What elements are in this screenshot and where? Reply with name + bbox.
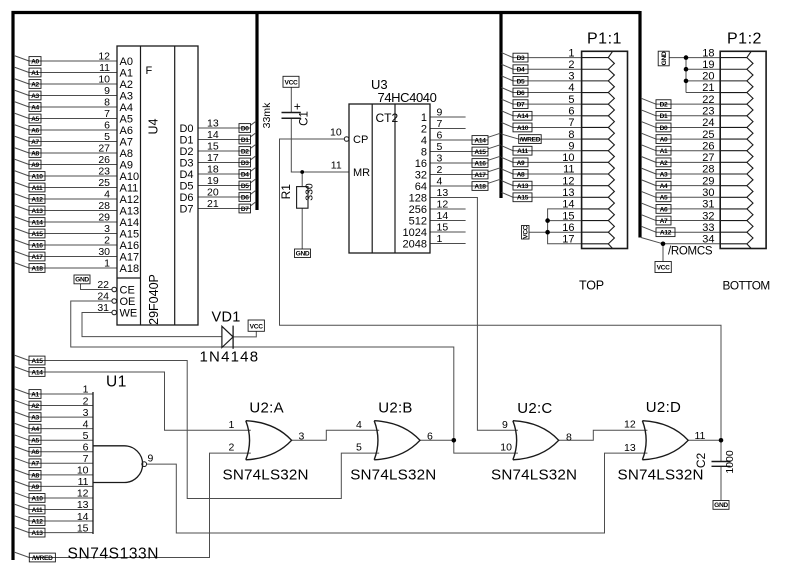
svg-text:5: 5 xyxy=(356,442,362,454)
svg-text:A12: A12 xyxy=(660,230,672,237)
svg-text:WE: WE xyxy=(120,307,138,319)
svg-text:A10: A10 xyxy=(120,171,140,183)
svg-text:20: 20 xyxy=(207,187,219,199)
svg-text:5: 5 xyxy=(83,430,89,442)
svg-text:9: 9 xyxy=(502,419,508,431)
svg-text:A4: A4 xyxy=(120,102,133,114)
svg-text:512: 512 xyxy=(409,215,427,227)
svg-text:A2: A2 xyxy=(31,81,39,88)
svg-text:A0: A0 xyxy=(31,58,39,65)
svg-text:D3: D3 xyxy=(241,160,249,167)
svg-text:12: 12 xyxy=(77,488,89,500)
svg-text:8: 8 xyxy=(566,432,572,444)
svg-text:25: 25 xyxy=(702,129,714,141)
svg-text:A14: A14 xyxy=(31,369,43,376)
svg-text:SN74LS32N: SN74LS32N xyxy=(491,467,577,484)
svg-text:A16: A16 xyxy=(31,242,43,249)
svg-text:A10: A10 xyxy=(517,125,529,132)
svg-text:A3: A3 xyxy=(660,171,668,178)
svg-text:D0: D0 xyxy=(660,125,668,132)
svg-text:A15: A15 xyxy=(120,228,140,240)
svg-text:TOP: TOP xyxy=(579,279,604,293)
svg-text:10: 10 xyxy=(330,127,342,139)
svg-text:12: 12 xyxy=(437,199,449,211)
svg-text:C1: C1 xyxy=(299,111,311,126)
svg-text:U2:C: U2:C xyxy=(517,400,552,417)
svg-text:22: 22 xyxy=(702,94,714,106)
svg-text:D2: D2 xyxy=(241,148,249,155)
svg-text:A8: A8 xyxy=(31,472,39,479)
svg-text:12: 12 xyxy=(624,419,636,431)
svg-text:/ROMCS: /ROMCS xyxy=(668,246,713,258)
svg-text:1N4148: 1N4148 xyxy=(200,349,260,366)
svg-text:23: 23 xyxy=(98,166,110,178)
svg-text:A14: A14 xyxy=(517,113,529,120)
svg-text:A15: A15 xyxy=(517,195,529,202)
svg-text:/WRED: /WRED xyxy=(32,555,53,562)
svg-text:27: 27 xyxy=(702,152,714,164)
svg-text:SN74LS32N: SN74LS32N xyxy=(223,466,309,483)
svg-text:1: 1 xyxy=(104,258,110,270)
svg-text:29: 29 xyxy=(702,175,714,187)
svg-text:8: 8 xyxy=(421,146,427,158)
svg-text:2: 2 xyxy=(83,395,89,407)
svg-text:D4: D4 xyxy=(179,169,193,181)
svg-text:10: 10 xyxy=(500,442,512,454)
svg-text:5: 5 xyxy=(568,94,574,106)
svg-text:28: 28 xyxy=(98,200,110,212)
svg-text:GND: GND xyxy=(296,250,310,257)
svg-text:34: 34 xyxy=(702,234,714,246)
svg-text:1024: 1024 xyxy=(403,227,427,239)
svg-text:1: 1 xyxy=(229,419,235,431)
svg-text:31: 31 xyxy=(702,199,714,211)
svg-text:A14: A14 xyxy=(120,217,140,229)
svg-text:D0: D0 xyxy=(241,125,249,132)
svg-text:D3: D3 xyxy=(517,55,525,62)
svg-text:A1: A1 xyxy=(31,70,39,77)
svg-text:C2: C2 xyxy=(694,453,708,469)
svg-text:VCC: VCC xyxy=(250,323,264,330)
svg-text:128: 128 xyxy=(409,192,427,204)
svg-text:4: 4 xyxy=(104,189,110,201)
svg-text:A15: A15 xyxy=(474,149,486,156)
svg-text:7: 7 xyxy=(437,118,443,130)
svg-text:D0: D0 xyxy=(179,123,193,135)
svg-text:30: 30 xyxy=(98,246,110,258)
svg-text:A7: A7 xyxy=(660,218,668,225)
svg-text:1: 1 xyxy=(437,233,443,245)
svg-text:A13: A13 xyxy=(31,530,43,537)
svg-text:A13: A13 xyxy=(120,205,140,217)
svg-text:25: 25 xyxy=(98,177,110,189)
svg-text:2048: 2048 xyxy=(403,238,427,250)
svg-text:4: 4 xyxy=(356,419,362,431)
svg-text:A18: A18 xyxy=(474,183,486,190)
svg-text:D5: D5 xyxy=(179,180,193,192)
svg-text:1: 1 xyxy=(83,384,89,396)
svg-text:VD1: VD1 xyxy=(212,310,241,326)
svg-text:13: 13 xyxy=(624,442,636,454)
svg-text:A8: A8 xyxy=(120,148,133,160)
svg-text:A13: A13 xyxy=(517,183,529,190)
svg-text:A11: A11 xyxy=(120,182,139,194)
svg-text:D6: D6 xyxy=(179,192,193,204)
svg-text:D6: D6 xyxy=(241,194,249,201)
svg-text:4: 4 xyxy=(83,418,89,430)
svg-text:VCC: VCC xyxy=(523,225,530,239)
svg-text:11: 11 xyxy=(695,430,706,442)
svg-text:P1:2: P1:2 xyxy=(727,31,762,48)
svg-text:15: 15 xyxy=(77,522,89,534)
svg-text:A6: A6 xyxy=(31,449,39,456)
svg-text:A3: A3 xyxy=(31,93,39,100)
svg-text:10: 10 xyxy=(98,74,110,86)
svg-text:14: 14 xyxy=(207,129,219,141)
svg-text:16: 16 xyxy=(415,158,427,170)
svg-text:SN74LS32N: SN74LS32N xyxy=(350,466,436,483)
svg-text:R1: R1 xyxy=(279,184,293,200)
svg-text:CE: CE xyxy=(120,284,135,296)
svg-text:A4: A4 xyxy=(31,104,39,111)
svg-text:6: 6 xyxy=(427,431,433,443)
svg-text:32: 32 xyxy=(702,210,714,222)
svg-text:4: 4 xyxy=(437,176,443,188)
svg-text:A14: A14 xyxy=(474,137,486,144)
svg-text:A7: A7 xyxy=(31,139,39,146)
svg-text:6: 6 xyxy=(568,106,574,118)
svg-text:33mk: 33mk xyxy=(261,102,273,128)
svg-text:A0: A0 xyxy=(120,56,133,68)
svg-text:GND: GND xyxy=(714,502,728,509)
svg-text:74HC4040: 74HC4040 xyxy=(378,90,437,105)
svg-text:D2: D2 xyxy=(179,146,193,158)
svg-text:18: 18 xyxy=(207,164,219,176)
svg-text:CP: CP xyxy=(353,134,368,146)
svg-text:D5: D5 xyxy=(517,78,525,85)
svg-text:A17: A17 xyxy=(31,254,43,261)
svg-text:A10: A10 xyxy=(31,495,43,502)
svg-text:12: 12 xyxy=(98,51,110,63)
svg-text:13: 13 xyxy=(437,187,449,199)
svg-text:23: 23 xyxy=(702,106,714,118)
svg-text:A12: A12 xyxy=(120,194,140,206)
svg-text:64: 64 xyxy=(415,181,427,193)
svg-text:14: 14 xyxy=(562,199,574,211)
svg-text:3: 3 xyxy=(83,407,89,419)
svg-text:OE: OE xyxy=(120,296,136,308)
svg-text:24: 24 xyxy=(702,117,714,129)
svg-text:A15: A15 xyxy=(31,231,43,238)
svg-text:33: 33 xyxy=(702,222,714,234)
svg-text:9: 9 xyxy=(437,107,443,119)
svg-text:29: 29 xyxy=(98,212,110,224)
svg-text:15: 15 xyxy=(207,141,219,153)
svg-text:A3: A3 xyxy=(31,415,39,422)
svg-text:A0: A0 xyxy=(660,136,668,143)
svg-text:U1: U1 xyxy=(106,374,127,391)
svg-text:A16: A16 xyxy=(474,160,486,167)
svg-text:D1: D1 xyxy=(241,137,249,144)
svg-text:A2: A2 xyxy=(31,403,39,410)
svg-text:14: 14 xyxy=(437,210,449,222)
svg-text:A2: A2 xyxy=(660,160,668,167)
svg-text:SN74LS32N: SN74LS32N xyxy=(618,467,704,484)
svg-text:19: 19 xyxy=(207,175,219,187)
svg-text:13: 13 xyxy=(207,118,219,130)
svg-text:17: 17 xyxy=(207,152,219,164)
svg-text:A5: A5 xyxy=(120,113,133,125)
svg-text:A11: A11 xyxy=(32,185,43,192)
svg-text:21: 21 xyxy=(207,198,219,210)
svg-text:A6: A6 xyxy=(120,125,133,137)
svg-text:19: 19 xyxy=(702,59,714,71)
svg-text:MR: MR xyxy=(353,167,370,179)
svg-text:2: 2 xyxy=(421,123,427,135)
svg-text:GND: GND xyxy=(75,277,89,284)
svg-text:F: F xyxy=(146,65,153,77)
svg-text:8: 8 xyxy=(104,97,110,109)
svg-text:A1: A1 xyxy=(660,148,668,155)
svg-text:D2: D2 xyxy=(660,102,668,109)
svg-text:U2:D: U2:D xyxy=(646,399,681,416)
svg-text:SN74S133N: SN74S133N xyxy=(68,546,160,563)
svg-text:28: 28 xyxy=(702,164,714,176)
svg-text:11: 11 xyxy=(99,62,110,74)
svg-text:A15: A15 xyxy=(31,358,43,365)
svg-text:A9: A9 xyxy=(31,162,39,169)
svg-text:2: 2 xyxy=(104,235,110,247)
svg-text:D7: D7 xyxy=(517,102,525,109)
svg-text:330: 330 xyxy=(304,183,316,201)
svg-text:11: 11 xyxy=(331,160,342,172)
svg-text:U4: U4 xyxy=(147,118,161,134)
svg-text:24: 24 xyxy=(97,291,109,303)
svg-text:3: 3 xyxy=(568,71,574,83)
svg-text:10: 10 xyxy=(562,152,574,164)
svg-text:256: 256 xyxy=(409,204,427,216)
svg-text:A18: A18 xyxy=(120,263,140,275)
svg-text:A8: A8 xyxy=(517,171,525,178)
svg-text:A6: A6 xyxy=(31,127,39,134)
svg-text:A1: A1 xyxy=(31,391,39,398)
svg-text:27: 27 xyxy=(98,143,110,155)
svg-text:D6: D6 xyxy=(517,90,525,97)
svg-text:18: 18 xyxy=(702,47,714,59)
svg-text:5: 5 xyxy=(437,141,443,153)
svg-text:30: 30 xyxy=(702,187,714,199)
svg-text:31: 31 xyxy=(97,302,109,314)
svg-text:A4: A4 xyxy=(31,426,39,433)
svg-text:7: 7 xyxy=(104,108,110,120)
svg-text:2: 2 xyxy=(568,59,574,71)
svg-text:3: 3 xyxy=(437,153,443,165)
svg-text:8: 8 xyxy=(568,129,574,141)
svg-text:A8: A8 xyxy=(31,150,39,157)
svg-text:A18: A18 xyxy=(31,265,43,272)
svg-text:D3: D3 xyxy=(179,157,193,169)
svg-text:7: 7 xyxy=(83,453,89,465)
svg-text:D5: D5 xyxy=(241,183,249,190)
svg-text:A11: A11 xyxy=(517,148,528,155)
svg-text:7: 7 xyxy=(568,117,574,129)
svg-text:4: 4 xyxy=(568,82,574,94)
svg-text:A6: A6 xyxy=(660,206,668,213)
svg-text:CT2: CT2 xyxy=(376,111,399,125)
svg-text:10: 10 xyxy=(77,465,89,477)
svg-text:A17: A17 xyxy=(474,172,486,179)
svg-text:A17: A17 xyxy=(120,251,140,263)
svg-text:11: 11 xyxy=(563,164,574,176)
svg-text:6: 6 xyxy=(437,130,443,142)
svg-text:13: 13 xyxy=(77,499,89,511)
svg-text:A5: A5 xyxy=(31,116,39,123)
svg-text:/WRED: /WRED xyxy=(520,136,541,143)
svg-text:15: 15 xyxy=(437,222,449,234)
svg-text:6: 6 xyxy=(104,120,110,132)
svg-text:U2:B: U2:B xyxy=(378,400,413,417)
svg-text:1000: 1000 xyxy=(724,450,736,474)
svg-text:9: 9 xyxy=(148,453,154,465)
svg-text:U2:A: U2:A xyxy=(249,400,284,417)
svg-text:D7: D7 xyxy=(179,203,193,215)
svg-text:5: 5 xyxy=(104,131,110,143)
svg-text:A9: A9 xyxy=(31,484,39,491)
svg-text:16: 16 xyxy=(562,222,574,234)
svg-text:A2: A2 xyxy=(120,79,133,91)
svg-text:12: 12 xyxy=(562,175,574,187)
svg-text:6: 6 xyxy=(83,441,89,453)
svg-text:21: 21 xyxy=(702,82,714,94)
svg-text:A13: A13 xyxy=(31,208,43,215)
svg-text:A4: A4 xyxy=(660,183,668,190)
svg-text:D7: D7 xyxy=(241,206,249,213)
svg-text:2: 2 xyxy=(437,164,443,176)
svg-text:GND: GND xyxy=(661,51,668,65)
svg-text:15: 15 xyxy=(562,210,574,222)
svg-text:D1: D1 xyxy=(179,134,193,146)
svg-text:D4: D4 xyxy=(241,171,249,178)
svg-text:A1: A1 xyxy=(120,67,133,79)
svg-text:A9: A9 xyxy=(120,159,133,171)
svg-text:1: 1 xyxy=(421,112,427,124)
svg-text:A9: A9 xyxy=(517,160,525,167)
svg-text:P1:1: P1:1 xyxy=(587,31,622,48)
svg-text:29F040P: 29F040P xyxy=(147,274,161,325)
svg-text:A5: A5 xyxy=(660,195,668,202)
svg-text:A7: A7 xyxy=(120,136,133,148)
svg-text:A7: A7 xyxy=(31,461,39,468)
svg-text:11: 11 xyxy=(78,476,89,488)
svg-text:17: 17 xyxy=(562,234,574,246)
svg-text:A11: A11 xyxy=(32,507,43,514)
svg-text:A5: A5 xyxy=(31,438,39,445)
svg-text:20: 20 xyxy=(702,71,714,83)
svg-text:D4: D4 xyxy=(517,67,525,74)
svg-text:22: 22 xyxy=(97,279,109,291)
svg-text:A12: A12 xyxy=(31,518,43,525)
svg-text:14: 14 xyxy=(77,511,89,523)
svg-text:VCC: VCC xyxy=(284,80,298,87)
svg-text:D1: D1 xyxy=(660,113,668,120)
svg-text:32: 32 xyxy=(415,169,427,181)
svg-text:9: 9 xyxy=(104,85,110,97)
svg-text:A14: A14 xyxy=(31,219,43,226)
svg-text:9: 9 xyxy=(568,140,574,152)
svg-text:A12: A12 xyxy=(31,196,43,203)
svg-text:VCC: VCC xyxy=(657,265,671,272)
svg-text:2: 2 xyxy=(229,442,235,454)
svg-text:A10: A10 xyxy=(31,173,43,180)
svg-text:3: 3 xyxy=(104,223,110,235)
svg-text:4: 4 xyxy=(421,135,427,147)
svg-text:13: 13 xyxy=(562,187,574,199)
svg-text:BOTTOM: BOTTOM xyxy=(723,279,770,293)
svg-text:26: 26 xyxy=(702,140,714,152)
svg-text:A3: A3 xyxy=(120,90,133,102)
svg-text:3: 3 xyxy=(299,431,305,443)
svg-text:26: 26 xyxy=(98,154,110,166)
svg-text:A16: A16 xyxy=(120,240,140,252)
svg-text:1: 1 xyxy=(568,47,574,59)
